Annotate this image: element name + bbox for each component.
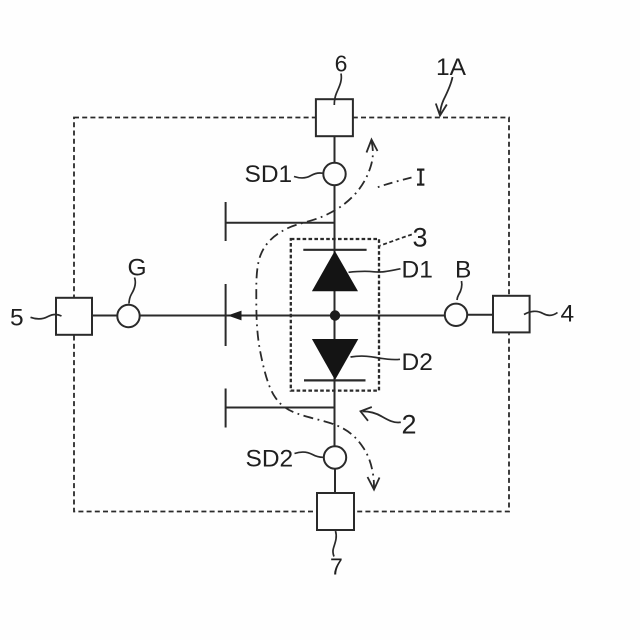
terminal circle G bbox=[117, 305, 139, 327]
transistor Q channel bar middle bbox=[225, 284, 227, 346]
terminal circle SD1 bbox=[323, 163, 345, 185]
label I bbox=[417, 170, 424, 185]
leader 3 (dashed) bbox=[380, 235, 412, 246]
svg-text:2: 2 bbox=[402, 410, 417, 440]
node: junction dot bbox=[330, 310, 340, 320]
leader SD1 bbox=[294, 173, 323, 178]
svg-text:3: 3 bbox=[413, 222, 428, 252]
wire: vertical main wire 6 to 7 bbox=[334, 136, 336, 163]
svg-text:4: 4 bbox=[561, 301, 575, 328]
leader 1A arrow bbox=[440, 77, 453, 115]
svg-text:6: 6 bbox=[335, 51, 348, 77]
terminal square 5 bbox=[56, 298, 92, 335]
leader D1 bbox=[349, 269, 401, 273]
current path curve I bbox=[256, 141, 374, 488]
arrowhead down (curve I bottom) bbox=[368, 477, 380, 490]
svg-text:G: G bbox=[128, 255, 147, 282]
arrowhead up (curve I top) bbox=[367, 140, 378, 153]
svg-text:5: 5 bbox=[10, 305, 24, 332]
diode D1 cathode bar bbox=[303, 249, 366, 251]
terminal square 6 bbox=[316, 99, 353, 136]
terminal square 4 bbox=[493, 296, 530, 333]
svg-text:1A: 1A bbox=[436, 54, 467, 81]
outer dashed boundary 1A bbox=[74, 118, 509, 512]
svg-text:SD1: SD1 bbox=[245, 161, 293, 188]
svg-text:B: B bbox=[455, 256, 471, 283]
diode D1 triangle bbox=[312, 251, 358, 291]
diode D2 anode bar bbox=[304, 379, 366, 381]
transistor Q channel bar bottom bbox=[225, 389, 227, 428]
body arrow on wire bbox=[228, 311, 242, 321]
diode D2 triangle bbox=[312, 339, 358, 380]
transistor Q channel bar top bbox=[225, 202, 227, 241]
leader B bbox=[457, 281, 462, 300]
wire: horizontal main wire G-B bbox=[92, 315, 117, 317]
wire: bottom source tick bbox=[226, 407, 335, 409]
leader from I to curve (dash-dot) bbox=[376, 178, 412, 189]
leader D2 bbox=[351, 356, 401, 360]
svg-text:D2: D2 bbox=[402, 349, 433, 376]
svg-text:D1: D1 bbox=[402, 257, 433, 284]
leader 4 bbox=[524, 311, 558, 315]
terminal square 7 bbox=[317, 493, 354, 530]
terminal circle SD2 bbox=[324, 446, 346, 468]
wire: top drain tick bbox=[226, 222, 335, 224]
leader 5 bbox=[31, 314, 62, 318]
leader 7 bbox=[333, 531, 336, 557]
inner dashed box 3 bbox=[291, 239, 379, 391]
terminal circle B bbox=[445, 304, 467, 326]
leader 2 arrow bbox=[363, 411, 401, 422]
svg-text:SD2: SD2 bbox=[246, 445, 294, 472]
leader SD2 bbox=[295, 452, 324, 457]
leader 6 bbox=[334, 74, 341, 106]
leader G bbox=[129, 278, 135, 304]
svg-text:7: 7 bbox=[330, 554, 343, 580]
